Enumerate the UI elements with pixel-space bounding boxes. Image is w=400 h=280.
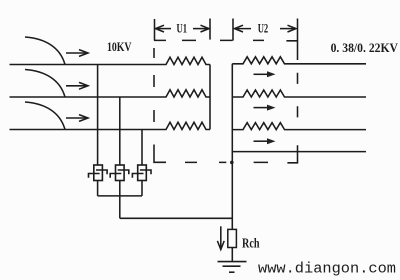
- wire resistor to ground: [231, 248, 233, 262]
- dashed box top edge: [154, 39, 298, 41]
- secondary winding W4 and line A: [232, 57, 366, 64]
- incoming feeder curve 3: [25, 102, 65, 130]
- wire arrester common bus: [98, 195, 142, 197]
- dashed box bottom edge: [185, 161, 268, 163]
- dimension arrow U2 left: [235, 25, 252, 32]
- resistor Rch: [228, 229, 237, 247]
- wire arrester F2 bottom lead: [119, 181, 121, 219]
- node neutral junction dot: [230, 161, 234, 165]
- dashed box bottom-right corner: [287, 145, 297, 163]
- svg-text:Rch: Rch: [242, 237, 260, 252]
- arrester F2: [110, 165, 129, 181]
- arrester F1: [89, 165, 108, 181]
- flow arrow on line C: [254, 138, 276, 144]
- wire neutral line N: [232, 151, 366, 153]
- svg-text:U2: U2: [258, 21, 269, 36]
- incoming feeder curve 1: [25, 37, 65, 65]
- flow arrow on line B: [254, 105, 276, 111]
- flow arrow on L3: [66, 115, 88, 122]
- svg-text:0. 38/0. 22KV: 0. 38/0. 22KV: [331, 40, 399, 55]
- incoming feeder curve 2: [25, 70, 65, 98]
- current direction arrow beside Rch: [217, 226, 224, 249]
- ground: [218, 262, 247, 273]
- svg-text:U1: U1: [177, 21, 188, 36]
- flow arrow on line A: [254, 71, 276, 77]
- secondary winding W6 and line C: [232, 123, 366, 130]
- wire arrester F3 bottom lead: [141, 181, 143, 196]
- dimension tick U2 left: [232, 19, 234, 41]
- wire arrester bus to neutral: [120, 217, 233, 219]
- flow arrow on L2: [66, 82, 88, 89]
- wire phase line L3 with primary winding W3: [10, 122, 211, 129]
- dimension tick U1 right: [209, 19, 211, 40]
- dimension arrow U1 right: [193, 25, 209, 32]
- dimension arrow U2 right: [280, 25, 296, 32]
- dashed box bottom-left corner: [154, 145, 166, 163]
- wire drop to arrester F1: [97, 65, 99, 166]
- dimension tick U2 right (merges into box right edge): [297, 19, 299, 42]
- dimension arrow U1 left: [156, 25, 172, 32]
- dashed box left edge: [153, 48, 155, 122]
- wire drop to arrester F2: [119, 97, 121, 165]
- wire secondary neutral bus: [231, 64, 233, 230]
- wire phase line L2 with primary winding W2: [10, 90, 211, 97]
- wire drop to arrester F3: [141, 130, 143, 166]
- svg-text:www.diangon.com: www.diangon.com: [258, 261, 396, 278]
- flow arrow on L1: [66, 50, 88, 57]
- dimension tick U1 left: [154, 19, 156, 40]
- secondary winding W5 and line B: [232, 90, 366, 97]
- arrester F3: [132, 165, 151, 181]
- wire arrester F1 bottom lead: [97, 181, 99, 196]
- wire phase line L1 with primary winding W1: [10, 57, 211, 64]
- wire primary star bus: [209, 65, 211, 130]
- svg-text:10KV: 10KV: [107, 39, 132, 54]
- dashed box right edge: [297, 41, 299, 117]
